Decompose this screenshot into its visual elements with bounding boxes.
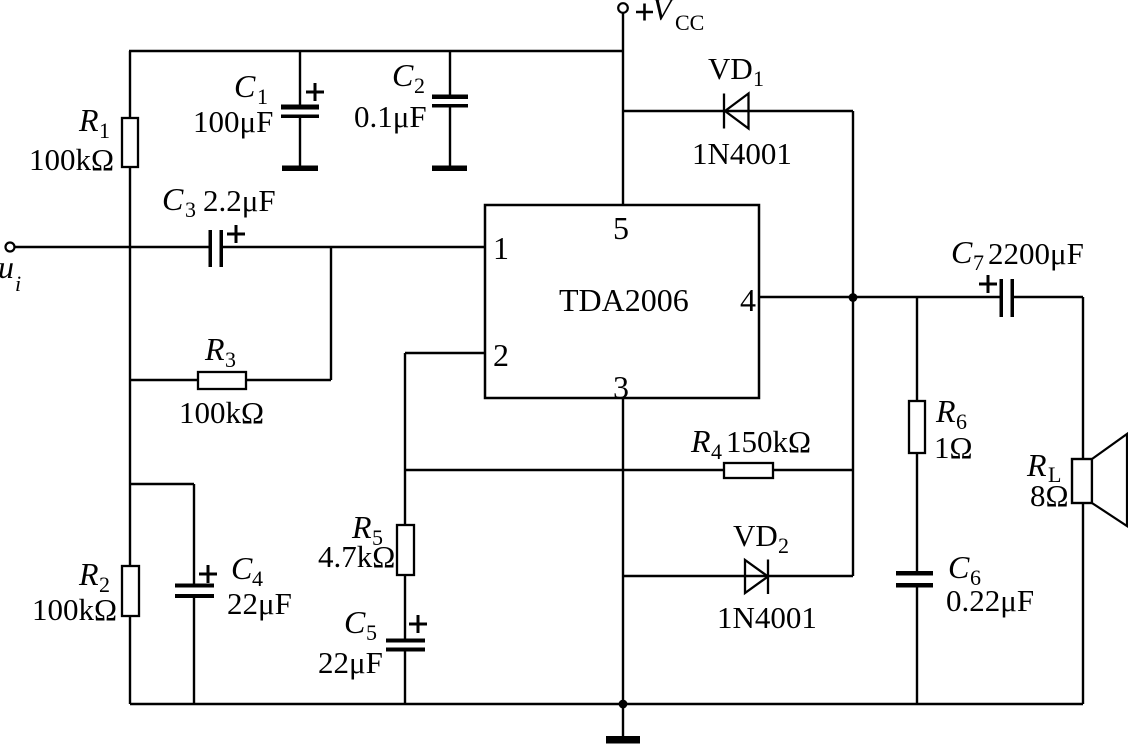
svg-text:5: 5	[366, 620, 377, 645]
svg-text:R: R	[78, 556, 99, 592]
plus polarity mark C1	[306, 83, 324, 101]
capacitor C3 plates	[209, 230, 224, 267]
ground bar under C1	[282, 166, 318, 172]
svg-text:C: C	[162, 181, 184, 217]
diode VD1 (cathode bar left, triangle pointing left)	[724, 94, 749, 129]
wire input line left of C3	[14, 246, 209, 248]
wire C1 top lead	[299, 51, 301, 106]
svg-text:2200μF: 2200μF	[988, 236, 1084, 271]
svg-text:C: C	[948, 549, 970, 585]
wire R3 horizontal	[130, 379, 331, 381]
svg-text:C: C	[234, 68, 256, 104]
wire C2 top lead	[449, 51, 451, 96]
wire C1 bottom lead	[299, 118, 301, 167]
resistor R6 body	[909, 401, 925, 453]
svg-text:C: C	[951, 234, 973, 270]
svg-text:R: R	[935, 393, 956, 429]
resistor R4 body	[724, 463, 773, 478]
svg-text:1N4001: 1N4001	[717, 600, 817, 635]
svg-text:u: u	[0, 249, 14, 285]
svg-text:2.2μF: 2.2μF	[203, 183, 276, 218]
svg-text:0.1μF: 0.1μF	[354, 99, 427, 134]
wire R6/C6 branch vertical upper	[916, 297, 918, 572]
svg-text:1N4001: 1N4001	[692, 136, 792, 171]
wire pin 4 output horizontal left of C7	[759, 296, 1001, 298]
diode VD2 (triangle pointing right, cathode bar right)	[745, 560, 768, 595]
speaker RL driver box	[1072, 459, 1092, 503]
wire pin-2 node vertical	[404, 353, 406, 640]
svg-text:1: 1	[493, 230, 509, 266]
svg-text:C: C	[392, 57, 414, 93]
capacitor C2 plates	[432, 95, 468, 108]
svg-text:3: 3	[225, 347, 236, 372]
plus polarity mark Vcc	[636, 4, 653, 21]
wire below C5	[404, 651, 406, 704]
svg-text:1: 1	[753, 66, 764, 91]
svg-text:i: i	[15, 271, 21, 296]
svg-text:2: 2	[493, 337, 509, 373]
svg-text:C: C	[231, 550, 253, 586]
svg-text:1Ω: 1Ω	[934, 430, 973, 465]
svg-text:CC: CC	[675, 10, 704, 35]
svg-text:2: 2	[414, 73, 425, 98]
junction node ground rail	[619, 700, 628, 709]
svg-text:4.7kΩ: 4.7kΩ	[318, 539, 395, 574]
svg-text:150kΩ: 150kΩ	[726, 424, 811, 459]
wire C2 bottom lead	[449, 107, 451, 167]
wire R6/C6 branch vertical lower	[916, 587, 918, 704]
plus polarity mark C3	[227, 225, 245, 243]
ground bar under C2	[432, 166, 467, 172]
svg-text:100kΩ: 100kΩ	[179, 395, 264, 430]
plus polarity mark C4	[199, 565, 217, 583]
svg-text:4: 4	[740, 282, 756, 318]
svg-text:100μF: 100μF	[193, 104, 273, 139]
svg-text:R: R	[690, 423, 711, 459]
resistor R3 body	[198, 372, 246, 389]
resistor R5 body	[397, 525, 414, 575]
svg-text:3: 3	[613, 369, 629, 405]
wire pin 3 vertical to ground	[622, 398, 624, 704]
svg-text:1: 1	[99, 118, 110, 143]
plus polarity mark C5	[409, 615, 427, 633]
wire C3 to R3 vertical	[330, 247, 332, 380]
svg-text:100kΩ: 100kΩ	[32, 592, 117, 627]
capacitor C7 plates	[1000, 279, 1015, 317]
wire output horizontal right of C7	[1014, 296, 1083, 298]
svg-text:3: 3	[185, 197, 196, 222]
svg-text:4: 4	[711, 439, 722, 464]
svg-text:TDA2006: TDA2006	[559, 282, 689, 318]
wire VD2 horizontal	[623, 575, 853, 577]
svg-text:C: C	[344, 604, 366, 640]
wire R4 feedback horizontal	[405, 469, 853, 471]
wire C4 vertical above	[193, 484, 195, 586]
wire left vertical bus	[129, 51, 131, 704]
svg-text:0.22μF: 0.22μF	[946, 583, 1034, 618]
svg-text:100kΩ: 100kΩ	[29, 142, 114, 177]
svg-text:22μF: 22μF	[227, 586, 292, 621]
svg-text:VD: VD	[733, 518, 778, 553]
wire VD1 branch horizontal	[623, 110, 853, 112]
svg-text:R: R	[204, 331, 225, 367]
svg-text:5: 5	[613, 210, 629, 246]
resistor R2 body	[122, 566, 139, 616]
svg-text:8Ω: 8Ω	[1030, 478, 1069, 513]
wire Vcc vertical	[622, 12, 624, 205]
wire top rail	[129, 50, 623, 52]
ground symbol main	[606, 736, 640, 744]
speaker RL horn	[1092, 434, 1127, 526]
input terminal circle u_i	[6, 243, 15, 252]
svg-text:R: R	[78, 102, 99, 138]
op-amp IC U1 TDA2006 box	[485, 205, 759, 398]
wire speaker branch vertical upper	[1082, 297, 1084, 459]
svg-text:7: 7	[973, 250, 984, 275]
resistor R1 body	[122, 118, 138, 167]
capacitor C1 plates	[281, 105, 319, 119]
capacitor C4 plates	[175, 584, 214, 599]
wire pin 2 horizontal	[405, 352, 485, 354]
wire C4 branch horizontal	[130, 483, 194, 485]
capacitor C6 plates	[896, 571, 933, 588]
plus polarity mark C7	[979, 275, 997, 293]
wire input line right of C3	[223, 246, 485, 248]
wire output right vertical (VD1 to VD2)	[852, 111, 854, 576]
svg-text:22μF: 22μF	[318, 645, 383, 680]
svg-text:2: 2	[778, 533, 789, 558]
wire ground stub	[622, 704, 624, 737]
junction node output (pin4/VD1/R4)	[849, 293, 858, 302]
Vcc terminal circle	[618, 3, 628, 13]
wire speaker branch vertical lower	[1082, 503, 1084, 704]
svg-text:VD: VD	[708, 51, 753, 86]
capacitor C5 plates	[386, 639, 425, 652]
wire bottom rail	[130, 703, 1083, 705]
wire C4 vertical below	[193, 598, 195, 704]
